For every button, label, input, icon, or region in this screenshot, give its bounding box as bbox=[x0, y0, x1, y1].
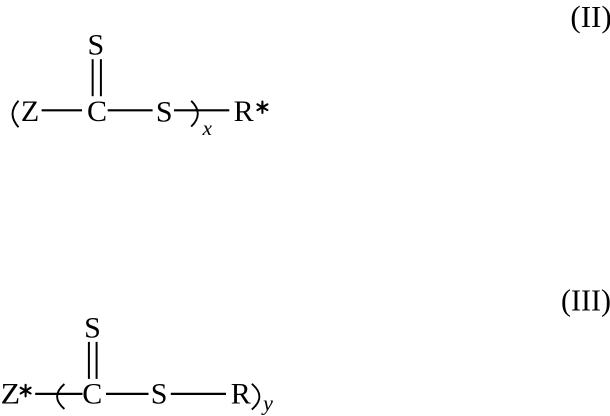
svg-text:S: S bbox=[87, 29, 104, 62]
svg-text:Z: Z bbox=[21, 95, 39, 128]
svg-text:R: R bbox=[234, 95, 254, 128]
formula II: open paren before Z bbox=[13, 101, 19, 127]
formula III: asterisk on Z bbox=[21, 385, 31, 397]
svg-text:C: C bbox=[87, 95, 107, 128]
svg-text:R: R bbox=[231, 377, 251, 410]
svg-text:C: C bbox=[82, 377, 102, 410]
formula III: bond Z*-C through open paren bbox=[35, 393, 82, 395]
svg-text:Z: Z bbox=[1, 377, 21, 410]
formula II: bond C-S bbox=[108, 109, 153, 111]
svg-text:y: y bbox=[261, 391, 273, 416]
formula II: bond Z-C bbox=[42, 109, 82, 111]
formula III: close paren bbox=[252, 384, 260, 410]
formula II: close paren crossing bond bbox=[191, 101, 198, 127]
formula II: asterisk on R bbox=[257, 102, 267, 114]
formula III: open paren crossing bond bbox=[57, 384, 64, 409]
svg-text:(III): (III) bbox=[561, 283, 610, 318]
formula II: bond S to R through close paren bbox=[174, 109, 229, 111]
svg-text:S: S bbox=[156, 95, 173, 128]
formula III: bond C-S bbox=[106, 393, 149, 395]
formula III: double bond C=S left line bbox=[88, 342, 90, 379]
svg-text:S: S bbox=[84, 311, 101, 344]
formula II: double bond C=S left line bbox=[92, 59, 94, 96]
svg-text:(II): (II) bbox=[570, 0, 610, 34]
formula II: double bond C=S right line bbox=[100, 59, 102, 96]
formula III: double bond C=S right line bbox=[96, 342, 98, 379]
formula III: bond S-R bbox=[171, 393, 226, 395]
svg-text:S: S bbox=[151, 377, 168, 410]
svg-text:x: x bbox=[202, 116, 213, 140]
